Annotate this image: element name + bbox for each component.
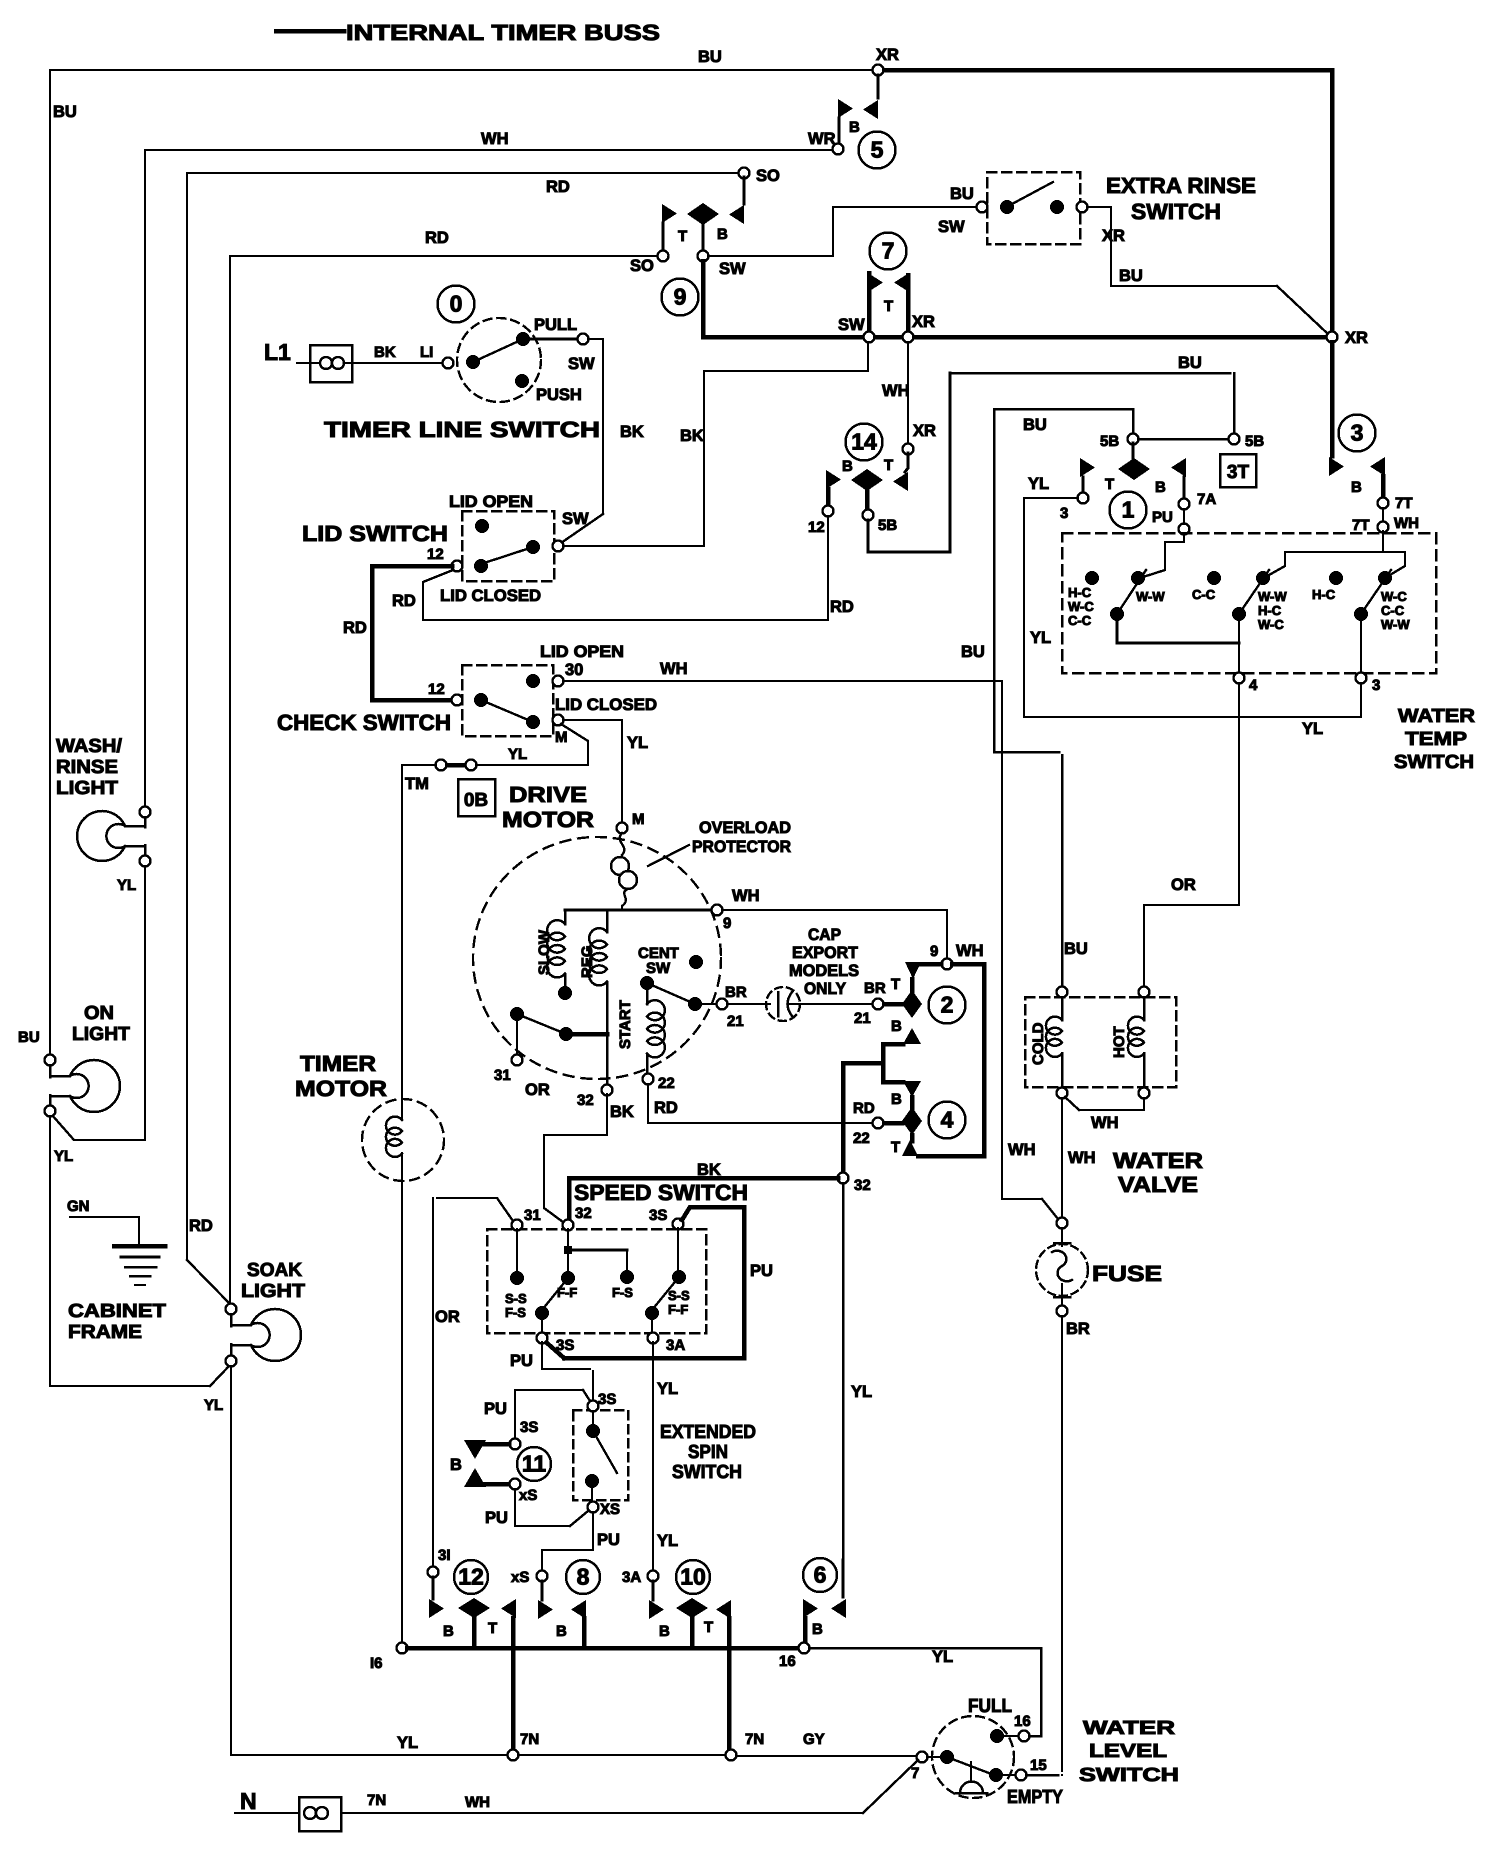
- svg-text:INTERNAL TIMER BUSS: INTERNAL TIMER BUSS: [346, 20, 660, 45]
- wire PULL bold: [528, 338, 577, 341]
- svg-text:B: B: [1351, 479, 1362, 496]
- rocker 2: [1207, 571, 1221, 585]
- svg-text:YL: YL: [627, 734, 648, 752]
- svg-text:M: M: [632, 811, 645, 828]
- wire RD thin from lid 12: [423, 570, 823, 620]
- connector 14 butterfly: [905, 453, 908, 472]
- svg-text:B: B: [659, 1623, 670, 1640]
- svg-text:BU: BU: [1119, 267, 1143, 285]
- svg-text:OVERLOAD: OVERLOAD: [699, 819, 791, 837]
- node 32 speed: [563, 1220, 574, 1231]
- svg-text:PUSH: PUSH: [536, 386, 582, 404]
- connector 2 top triangle: [911, 962, 941, 967]
- svg-text:CHECK SWITCH: CHECK SWITCH: [277, 710, 451, 735]
- svg-text:PU: PU: [484, 1400, 507, 1418]
- node 5B: [863, 510, 874, 521]
- rocker 3: [1329, 571, 1343, 585]
- svg-text:SW: SW: [646, 960, 671, 977]
- bottom link rockers 1-2 (bold): [1117, 618, 1239, 643]
- svg-text:B: B: [556, 1623, 567, 1640]
- svg-text:12: 12: [427, 546, 444, 563]
- svg-text:N: N: [240, 1788, 257, 1814]
- circle 14: [846, 424, 883, 461]
- svg-text:BK: BK: [610, 1103, 634, 1121]
- svg-text:PU: PU: [597, 1531, 620, 1549]
- water level switch: [932, 1716, 1014, 1798]
- connector 2 diamond: [910, 979, 915, 993]
- svg-text:F-S: F-S: [505, 1305, 526, 1320]
- node 7N left: [508, 1750, 519, 1761]
- svg-text:3I: 3I: [438, 1547, 451, 1564]
- connector mid triangles U-jog: [903, 1028, 921, 1044]
- svg-text:SW: SW: [562, 510, 589, 528]
- svg-text:MOTOR: MOTOR: [295, 1076, 387, 1101]
- wire RD to soak light: [187, 1260, 231, 1305]
- wire YL on light down: [49, 1116, 51, 1385]
- svg-text:C-C: C-C: [1068, 613, 1092, 628]
- svg-text:3: 3: [1372, 677, 1380, 694]
- node 12: [823, 506, 834, 517]
- svg-text:LIGHT: LIGHT: [241, 1281, 305, 1302]
- wire BR down: [1061, 1316, 1063, 1771]
- node 7A: [1179, 499, 1190, 510]
- svg-text:T: T: [884, 298, 893, 315]
- svg-text:WATER: WATER: [1113, 1148, 1203, 1173]
- node XR junction on BU buss: [873, 65, 884, 76]
- overload protector: [620, 833, 625, 855]
- START winding: [646, 988, 649, 1004]
- svg-text:W-W: W-W: [1381, 617, 1410, 632]
- svg-text:7A: 7A: [1197, 491, 1216, 508]
- svg-text:YL: YL: [932, 1648, 953, 1666]
- svg-text:HOT: HOT: [1111, 1026, 1128, 1058]
- connector TM pair: [447, 763, 466, 768]
- svg-text:EXPORT: EXPORT: [792, 944, 858, 962]
- svg-text:F-F: F-F: [668, 1302, 688, 1317]
- svg-text:WH: WH: [732, 887, 760, 905]
- svg-text:WASH/: WASH/: [56, 736, 123, 757]
- node BR: [717, 999, 728, 1010]
- rotor arm: [510, 1007, 524, 1021]
- node WH fuse top: [1057, 1218, 1068, 1229]
- connector 12: [432, 1577, 435, 1599]
- svg-text:REG: REG: [579, 945, 596, 978]
- svg-text:SO: SO: [756, 167, 780, 185]
- circle 9: [662, 279, 699, 316]
- node 16 right: [799, 1643, 810, 1654]
- svg-text:7T: 7T: [1395, 495, 1413, 512]
- svg-text:RD: RD: [853, 1100, 875, 1117]
- extended spin switch: [573, 1410, 628, 1500]
- svg-text:WH: WH: [882, 382, 910, 400]
- svg-text:5B: 5B: [878, 517, 897, 534]
- wire RD from 22: [648, 1084, 872, 1123]
- node SW of timer line switch: [578, 334, 589, 345]
- svg-text:14: 14: [851, 429, 877, 455]
- wire OR to speed 31: [437, 1198, 513, 1221]
- svg-text:YL: YL: [1030, 629, 1051, 647]
- node SO: [658, 251, 669, 262]
- svg-text:BR: BR: [1066, 1320, 1090, 1338]
- soak light lamp: [226, 1304, 237, 1315]
- wire BU left loop: [994, 409, 1133, 752]
- svg-text:SWITCH: SWITCH: [1394, 752, 1474, 773]
- node SW on buss: [864, 332, 875, 343]
- svg-text:BK: BK: [697, 1161, 721, 1179]
- svg-text:SW: SW: [938, 218, 965, 236]
- svg-text:B: B: [812, 1621, 823, 1638]
- wire 5B to BU top (bold): [868, 373, 950, 552]
- svg-text:12: 12: [458, 1564, 484, 1590]
- rocker 1: [1085, 571, 1099, 585]
- svg-text:SPIN: SPIN: [688, 1442, 728, 1463]
- svg-text:9: 9: [723, 915, 731, 932]
- wire GY: [736, 1755, 916, 1757]
- wire BU top right: [950, 372, 1230, 375]
- node 3S speed: [673, 1219, 684, 1230]
- svg-text:WATER: WATER: [1083, 1718, 1175, 1739]
- svg-text:BK: BK: [374, 344, 396, 361]
- circle 3: [1339, 415, 1376, 452]
- svg-text:WATER: WATER: [1398, 706, 1475, 727]
- svg-text:BU: BU: [950, 185, 974, 203]
- wire from lid SW to junction: [563, 343, 868, 546]
- svg-text:22: 22: [658, 1075, 675, 1092]
- node 16 left: [397, 1643, 408, 1654]
- svg-text:RD: RD: [654, 1099, 678, 1117]
- HOT solenoid: [1139, 987, 1150, 998]
- svg-text:TIMER: TIMER: [300, 1051, 376, 1076]
- svg-text:12: 12: [428, 681, 445, 698]
- svg-text:SW: SW: [838, 316, 865, 334]
- svg-text:WH: WH: [1091, 1114, 1119, 1132]
- wire YL 3A down: [652, 1342, 654, 1571]
- wire YL lamp returns: [144, 866, 146, 1139]
- svg-text:FUSE: FUSE: [1092, 1261, 1162, 1286]
- wire PU ext XS down to connector 8: [542, 1512, 593, 1571]
- svg-text:RD: RD: [546, 178, 570, 196]
- svg-text:3A: 3A: [622, 1569, 641, 1586]
- connector 5 butterfly: [877, 75, 880, 98]
- svg-text:RD: RD: [392, 592, 416, 610]
- timer line switch: [457, 318, 541, 402]
- svg-text:T: T: [704, 1619, 713, 1636]
- svg-text:BU: BU: [18, 1029, 40, 1046]
- svg-text:SWITCH: SWITCH: [672, 1462, 742, 1483]
- node 15 empty: [1016, 1770, 1027, 1781]
- wire PU loop 3S top to bottom (bold): [682, 1207, 740, 1220]
- node fuse bottom: [1057, 1306, 1068, 1317]
- wire WH from XR down: [907, 342, 909, 444]
- svg-text:WH: WH: [660, 660, 688, 678]
- svg-text:XR: XR: [912, 313, 935, 331]
- svg-text:21: 21: [854, 1010, 871, 1027]
- svg-text:32: 32: [854, 1177, 871, 1194]
- svg-text:XR: XR: [1102, 227, 1125, 245]
- svg-text:YL: YL: [54, 1148, 73, 1165]
- svg-text:EXTRA RINSE: EXTRA RINSE: [1106, 173, 1256, 198]
- connector 4 diamond: [910, 1097, 915, 1108]
- svg-text:5: 5: [871, 137, 884, 163]
- svg-text:VALVE: VALVE: [1118, 1172, 1198, 1197]
- svg-text:3: 3: [1351, 420, 1364, 446]
- svg-text:H-C: H-C: [1068, 585, 1092, 600]
- wire 32 motor to speed switch: [544, 1094, 607, 1222]
- speed switch box: [487, 1229, 706, 1333]
- node 22 connector 4: [873, 1118, 884, 1129]
- node M of drive motor: [617, 823, 628, 834]
- circle 0: [438, 286, 475, 323]
- circle 4: [929, 1102, 966, 1139]
- wire to timer motor: [402, 765, 436, 1120]
- svg-text:B: B: [717, 226, 728, 243]
- wire RD lower: [230, 256, 658, 1306]
- svg-text:B: B: [849, 119, 860, 136]
- svg-text:BU: BU: [1023, 416, 1047, 434]
- svg-text:4: 4: [941, 1107, 954, 1133]
- node 3A bottom: [648, 1333, 659, 1344]
- wire bold from U-jog to 32: [841, 1063, 846, 1173]
- node PU: [1179, 524, 1190, 535]
- wire WH from 30: [563, 680, 1002, 682]
- svg-text:6: 6: [814, 1562, 827, 1588]
- svg-text:BU: BU: [53, 103, 77, 121]
- svg-text:WH: WH: [1394, 515, 1419, 532]
- 3T box: [1220, 454, 1256, 487]
- svg-text:3A: 3A: [666, 1337, 685, 1354]
- connector 3 butterfly: [1329, 457, 1344, 476]
- water valve box: [1025, 997, 1176, 1087]
- svg-text:C-C: C-C: [1381, 603, 1405, 618]
- wire WH valve return: [1079, 1098, 1144, 1110]
- internal timer buss horizontal (bold): [703, 335, 863, 340]
- wire XR bold down to connector 3: [1330, 342, 1335, 456]
- svg-text:PROTECTOR: PROTECTOR: [692, 838, 791, 856]
- svg-text:BU: BU: [698, 48, 722, 66]
- speed switch internals: [516, 1229, 518, 1272]
- svg-text:B: B: [450, 1456, 462, 1474]
- node 5B left: [1128, 434, 1139, 445]
- on light lamp: [45, 1055, 56, 1066]
- REG winding: [606, 910, 609, 932]
- svg-text:ONLY: ONLY: [804, 980, 846, 998]
- svg-text:T: T: [884, 457, 893, 474]
- connector 11: [510, 1439, 521, 1450]
- extra rinse switch: [987, 172, 1080, 244]
- svg-text:H-C: H-C: [1258, 603, 1282, 618]
- node 21: [873, 999, 884, 1010]
- svg-text:RINSE: RINSE: [56, 757, 118, 778]
- svg-text:PU: PU: [510, 1352, 533, 1370]
- svg-text:W-C: W-C: [1258, 617, 1284, 632]
- circle 7: [870, 233, 907, 270]
- node 4: [1234, 673, 1245, 684]
- svg-text:RD: RD: [343, 619, 367, 637]
- svg-text:OR: OR: [1171, 876, 1196, 894]
- node 31 bottom: [428, 1567, 439, 1578]
- svg-text:xS: xS: [519, 1487, 537, 1504]
- svg-text:0B: 0B: [464, 790, 488, 811]
- svg-text:WH: WH: [1008, 1141, 1036, 1159]
- wire SW bold down to buss: [701, 261, 706, 337]
- node M of check switch: [553, 715, 564, 726]
- svg-text:BU: BU: [1064, 940, 1088, 958]
- node 31 motor: [516, 1018, 518, 1055]
- svg-text:WH: WH: [465, 1794, 490, 1811]
- svg-text:SLOW: SLOW: [536, 929, 553, 975]
- svg-text:31: 31: [524, 1207, 541, 1224]
- svg-text:W-W: W-W: [1136, 589, 1165, 604]
- svg-text:B: B: [443, 1623, 454, 1640]
- svg-text:YL: YL: [204, 1397, 223, 1414]
- svg-text:PULL: PULL: [534, 316, 577, 334]
- svg-text:32: 32: [577, 1092, 594, 1109]
- wire rocker 3 to node 3: [1360, 618, 1362, 673]
- node XR above circle 14: [903, 444, 914, 455]
- wire 7N YL bottom: [231, 1366, 508, 1755]
- node XR on buss: [903, 332, 914, 343]
- svg-text:XR: XR: [1345, 329, 1368, 347]
- node 31 speed: [512, 1220, 523, 1231]
- svg-text:TIMER LINE SWITCH: TIMER LINE SWITCH: [324, 417, 600, 442]
- svg-text:YL: YL: [1028, 475, 1049, 493]
- svg-text:YL: YL: [117, 877, 136, 894]
- svg-text:ON: ON: [84, 1003, 114, 1024]
- svg-text:SO: SO: [630, 257, 654, 275]
- svg-text:7: 7: [882, 238, 895, 264]
- water temp switch box: [1062, 533, 1436, 673]
- wire WH cold down to fuse: [1061, 1098, 1063, 1217]
- wire BR to 15: [1026, 1774, 1058, 1777]
- svg-text:BK: BK: [620, 423, 644, 441]
- svg-text:XS: XS: [600, 1501, 620, 1518]
- svg-text:TM: TM: [405, 775, 429, 793]
- svg-text:11: 11: [522, 1451, 547, 1477]
- wire RD upper: [187, 173, 739, 1260]
- svg-text:7N: 7N: [520, 1731, 539, 1748]
- svg-text:FULL: FULL: [968, 1696, 1012, 1717]
- connector 10: [652, 1581, 655, 1600]
- svg-text:RD: RD: [425, 229, 449, 247]
- svg-text:PU: PU: [1152, 509, 1173, 526]
- connector 1 butterfly: [1118, 458, 1150, 480]
- node XS ext: [588, 1502, 599, 1513]
- svg-text:SW: SW: [719, 260, 746, 278]
- svg-text:4: 4: [1249, 677, 1258, 694]
- fuse: [1036, 1244, 1088, 1296]
- node SW junction: [698, 251, 709, 262]
- svg-text:T: T: [891, 976, 900, 993]
- svg-text:3: 3: [1060, 505, 1068, 522]
- svg-text:START: START: [617, 1000, 634, 1049]
- wire RD bold lid 12 to check 12: [372, 566, 452, 700]
- svg-text:8: 8: [577, 1564, 590, 1590]
- svg-text:LID CLOSED: LID CLOSED: [555, 696, 657, 714]
- svg-text:15: 15: [1030, 1757, 1047, 1774]
- wire RD from 12 down: [423, 516, 828, 620]
- svg-text:SPEED SWITCH: SPEED SWITCH: [574, 1180, 748, 1205]
- svg-text:7N: 7N: [745, 1731, 764, 1748]
- svg-text:SOAK: SOAK: [247, 1260, 302, 1281]
- svg-text:LID SWITCH: LID SWITCH: [302, 521, 448, 546]
- lid switch: [462, 511, 554, 581]
- svg-text:GN: GN: [67, 1198, 90, 1215]
- svg-text:YL: YL: [657, 1380, 678, 1398]
- circle 2: [929, 987, 966, 1024]
- svg-text:RD: RD: [189, 1217, 213, 1235]
- switch arm to empty: [947, 1757, 994, 1775]
- wire BU to 5B right: [1233, 373, 1236, 433]
- svg-text:S-S: S-S: [505, 1291, 527, 1306]
- svg-text:2: 2: [941, 992, 954, 1018]
- node XR right: [1327, 332, 1338, 343]
- svg-text:B: B: [842, 458, 853, 475]
- node 9 WH: [942, 959, 953, 970]
- svg-text:PU: PU: [485, 1509, 508, 1527]
- svg-text:B: B: [1155, 479, 1166, 496]
- svg-text:xS: xS: [511, 1569, 529, 1586]
- svg-text:F-S: F-S: [612, 1285, 633, 1300]
- wire BU internal timer buss (bold): [881, 68, 1332, 73]
- svg-text:21: 21: [727, 1013, 744, 1030]
- svg-text:LEVEL: LEVEL: [1089, 1741, 1167, 1762]
- svg-text:32: 32: [575, 1205, 592, 1222]
- svg-text:7T: 7T: [1352, 517, 1370, 534]
- svg-text:T: T: [488, 1620, 497, 1637]
- svg-text:5B: 5B: [1100, 433, 1119, 450]
- svg-text:T: T: [1105, 476, 1114, 493]
- wire WH motor top: [565, 909, 712, 912]
- svg-text:CABINET: CABINET: [68, 1301, 166, 1322]
- wire PU speed 3S to extended spin 3S: [542, 1342, 590, 1369]
- svg-text:31: 31: [494, 1067, 511, 1084]
- svg-text:3S: 3S: [649, 1207, 667, 1224]
- svg-text:SWITCH: SWITCH: [1131, 199, 1221, 224]
- svg-text:C-C: C-C: [1192, 587, 1216, 602]
- svg-text:16: 16: [779, 1653, 796, 1670]
- svg-text:LID CLOSED: LID CLOSED: [440, 587, 541, 605]
- wire BU left vertical: [49, 70, 51, 1057]
- svg-text:W-W: W-W: [1258, 589, 1287, 604]
- node 16 full: [1019, 1731, 1030, 1742]
- svg-text:LID OPEN: LID OPEN: [540, 643, 624, 661]
- node 5B right: [1229, 434, 1240, 445]
- svg-text:7N: 7N: [367, 1792, 386, 1809]
- svg-text:YL: YL: [1302, 720, 1323, 738]
- svg-text:MODELS: MODELS: [789, 962, 859, 980]
- node 32 junction: [838, 1173, 849, 1184]
- svg-text:B: B: [891, 1091, 902, 1108]
- svg-text:YL: YL: [657, 1532, 678, 1550]
- connector block bold bracket: [918, 964, 984, 1156]
- svg-text:LIGHT: LIGHT: [56, 778, 118, 799]
- wire BU from extra rinse to XR: [1087, 207, 1277, 286]
- svg-text:BK: BK: [680, 427, 704, 445]
- node WR: [833, 144, 844, 155]
- svg-text:BR: BR: [864, 980, 886, 997]
- svg-text:7: 7: [911, 1765, 919, 1782]
- svg-text:LIGHT: LIGHT: [72, 1024, 130, 1045]
- svg-text:TEMP: TEMP: [1405, 729, 1467, 750]
- drive motor code box 08: [458, 779, 495, 816]
- svg-text:16: 16: [1014, 1713, 1031, 1730]
- svg-text:H-C: H-C: [1312, 587, 1336, 602]
- node 3 bottom: [1356, 673, 1367, 684]
- wire BU outer top: [50, 69, 876, 71]
- svg-text:BU: BU: [1178, 354, 1202, 372]
- svg-text:RD: RD: [830, 598, 854, 616]
- svg-text:T: T: [891, 1139, 900, 1156]
